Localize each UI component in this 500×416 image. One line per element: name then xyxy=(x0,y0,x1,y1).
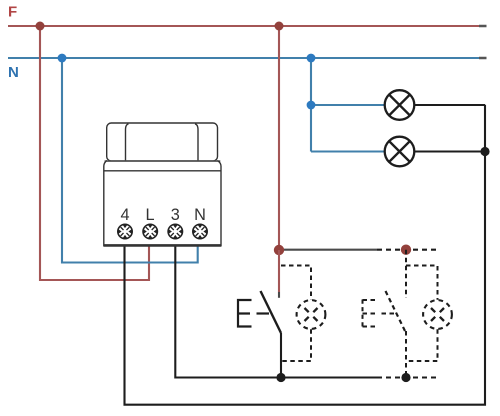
terminal screw 3 xyxy=(168,224,182,238)
indicator box S2 dashed xyxy=(406,266,438,362)
glow lamp H2 dashed xyxy=(423,300,452,329)
switch S1 pivot wire xyxy=(280,333,282,378)
terminal screw L xyxy=(143,224,157,238)
wire lamp E1 feed xyxy=(311,104,385,106)
switch S1 push-button actuator xyxy=(238,300,252,327)
junction on N bus at x=62 xyxy=(58,54,67,63)
wire neutral drop to lamps xyxy=(310,58,312,152)
svg-text:L: L xyxy=(145,206,154,224)
wire top link dashed continuation xyxy=(377,249,438,251)
junction bottom at switch S1 xyxy=(276,373,285,382)
wire N neutral bus xyxy=(8,57,486,59)
relay module U1 body xyxy=(104,160,221,245)
switch S1 lever xyxy=(261,291,282,333)
relay module U1 flange bottom line xyxy=(104,170,221,172)
svg-text:F: F xyxy=(8,4,17,21)
relay module U1 cap right clip line xyxy=(195,124,198,161)
junction on return bus at y=151.5 xyxy=(480,147,489,156)
wire top link between switch feeds xyxy=(281,249,377,251)
relay module U1 cap left clip line xyxy=(126,124,129,161)
switch S2 pivot wire dashed xyxy=(405,331,407,378)
junction on F bus at x=40 xyxy=(36,22,45,31)
wire F bus end tip xyxy=(479,25,487,28)
svg-text:N: N xyxy=(194,206,206,224)
wire lamp E2 feed xyxy=(311,150,385,152)
node B junction at switch S2 feed xyxy=(401,245,411,255)
switch S2 lever dashed xyxy=(386,291,406,331)
switch S2 push-button actuator dashed xyxy=(363,300,378,328)
node A junction at switch S1 feed xyxy=(274,245,284,255)
junction on F bus at x=279 xyxy=(275,22,284,31)
wire phase drop to switches xyxy=(278,26,280,250)
lamp E1 xyxy=(385,90,415,120)
wire bottom dashed continuation xyxy=(377,376,437,378)
terminal screw N xyxy=(193,224,207,238)
wire terminal 3 to switch S1 xyxy=(175,246,377,378)
switch S1 fixed contact xyxy=(278,250,280,292)
svg-text:4: 4 xyxy=(120,206,129,224)
switch S1 actuator link xyxy=(257,312,270,314)
junction at x=311 y=105 xyxy=(307,101,316,110)
junction on N bus at x=311 xyxy=(307,54,316,63)
indicator box S1 dashed xyxy=(281,266,311,362)
junction bottom at switch S2 xyxy=(401,373,410,382)
wire F phase bus xyxy=(8,25,486,27)
wire lamp E2 to return bus xyxy=(414,150,485,152)
svg-text:3: 3 xyxy=(171,206,180,224)
wire lamp E1 to return bus xyxy=(414,104,485,106)
relay module U1 body bottom edge xyxy=(104,244,221,247)
wire N to terminal N xyxy=(62,58,198,263)
switch S2 actuator link dashed xyxy=(382,313,396,315)
glow lamp H1 dashed xyxy=(297,300,326,329)
wire return bus to terminal 4 xyxy=(125,105,486,405)
relay module U1 cap xyxy=(107,123,218,161)
wire N bus end tip xyxy=(479,57,487,60)
relay module U1 body top edge xyxy=(105,160,221,162)
terminal screw 4 xyxy=(118,224,132,238)
wire F to terminal L xyxy=(40,26,149,280)
lamp E2 xyxy=(385,137,415,167)
switch S2 feed dashed xyxy=(405,250,407,298)
svg-text:N: N xyxy=(8,64,19,81)
